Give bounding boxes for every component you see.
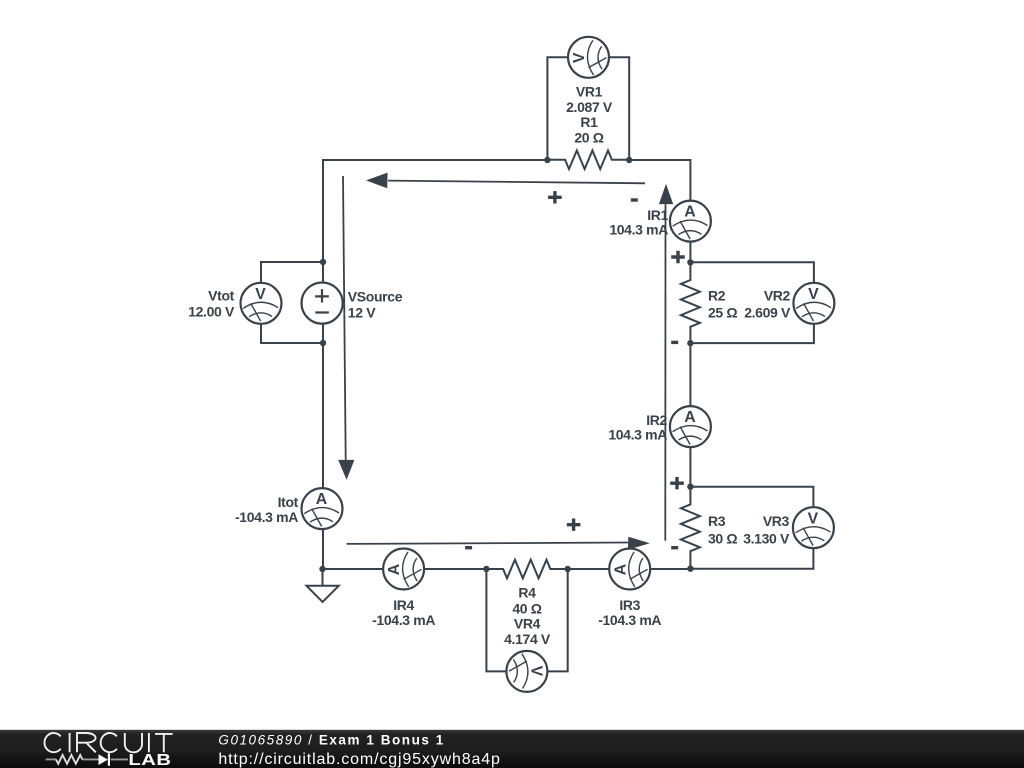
svg-text:-104.3 mA: -104.3 mA	[598, 612, 661, 628]
svg-text:104.3 mA: 104.3 mA	[609, 222, 668, 238]
svg-text:VR1: VR1	[576, 84, 603, 100]
svg-text:12 V: 12 V	[348, 304, 376, 320]
svg-text:G01065890 / Exam 1 Bonus 1: G01065890 / Exam 1 Bonus 1	[218, 733, 444, 748]
svg-text:VR3: VR3	[763, 513, 790, 529]
svg-text:R4: R4	[518, 585, 536, 601]
svg-text:3.130 V: 3.130 V	[743, 531, 790, 547]
svg-text:20 Ω: 20 Ω	[574, 129, 603, 145]
svg-text:2.087 V: 2.087 V	[566, 99, 613, 115]
svg-text:Vtot: Vtot	[208, 288, 235, 304]
svg-text:104.3 mA: 104.3 mA	[608, 427, 667, 443]
svg-text:4.174 V: 4.174 V	[504, 631, 551, 647]
svg-text:R1: R1	[580, 114, 598, 130]
svg-text:http://circuitlab.com/cgj95xyw: http://circuitlab.com/cgj95xywh8a4p	[218, 751, 500, 768]
svg-text:VR2: VR2	[764, 288, 791, 304]
svg-text:IR3: IR3	[619, 597, 640, 613]
svg-text:30 Ω: 30 Ω	[708, 531, 737, 547]
svg-text:-104.3 mA: -104.3 mA	[235, 509, 298, 525]
svg-text:2.609 V: 2.609 V	[744, 304, 791, 320]
svg-text:VSource: VSource	[348, 289, 403, 305]
svg-text:Itot: Itot	[278, 494, 299, 510]
svg-text:R3: R3	[708, 513, 726, 529]
svg-text:25 Ω: 25 Ω	[708, 304, 737, 320]
svg-text:12.00 V: 12.00 V	[188, 304, 235, 320]
svg-text:40 Ω: 40 Ω	[512, 601, 541, 617]
svg-text:IR4: IR4	[393, 597, 414, 613]
svg-text:-104.3 mA: -104.3 mA	[372, 612, 435, 628]
svg-text:VR4: VR4	[514, 616, 541, 632]
svg-text:R2: R2	[708, 288, 726, 304]
svg-text:LAB: LAB	[128, 751, 171, 768]
